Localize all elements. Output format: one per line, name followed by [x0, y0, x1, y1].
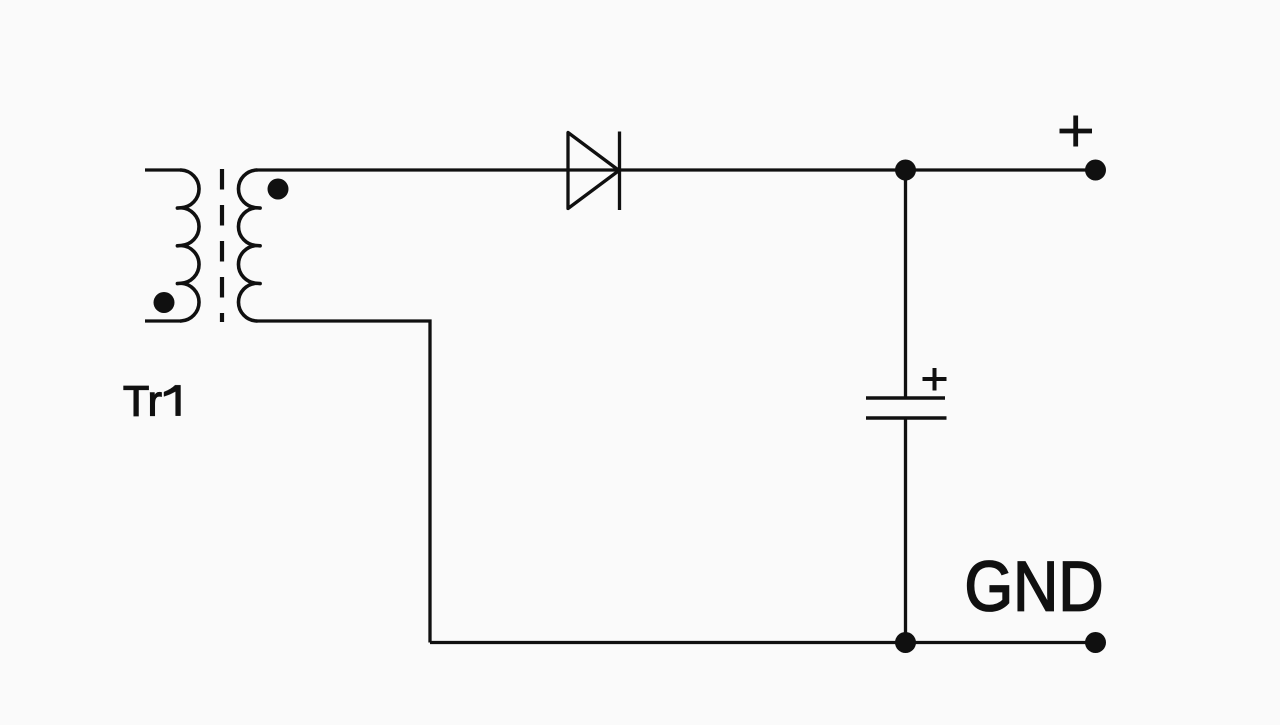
transformer Tr1 core	[220, 169, 224, 322]
label Tr1	[123, 378, 181, 426]
transformer Tr1 primary winding	[177, 170, 199, 321]
wire capacitor top	[904, 170, 907, 398]
polarity dot secondary	[268, 179, 289, 200]
junction node bottom	[895, 632, 916, 653]
svg-text:Tr: Tr	[123, 378, 162, 426]
terminal + output	[1085, 160, 1106, 181]
wire secondary top to + terminal	[257, 168, 1096, 171]
wire secondary bottom lead and left vertical	[257, 321, 431, 643]
transformer Tr1 primary top lead	[145, 168, 181, 171]
transformer Tr1 primary bottom lead	[145, 319, 181, 322]
diode D1	[568, 132, 620, 211]
wire bottom to GND terminal	[430, 641, 1096, 644]
transformer Tr1 secondary winding	[238, 170, 260, 321]
polarity dot primary	[154, 292, 175, 313]
wire capacitor bottom	[904, 418, 907, 643]
label + (positive output)	[1060, 116, 1093, 147]
terminal GND output	[1085, 632, 1106, 653]
svg-text:GND: GND	[965, 547, 1104, 626]
junction node top	[895, 160, 916, 181]
capacitor C1	[866, 368, 947, 418]
